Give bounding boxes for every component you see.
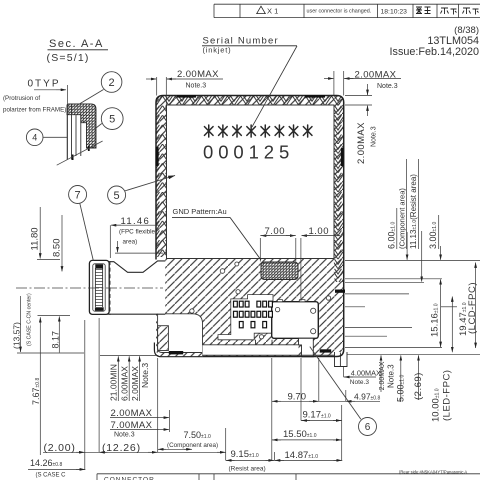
svg-text:Note.3: Note.3 <box>350 379 370 386</box>
svg-text:(inkjet): (inkjet) <box>203 46 232 55</box>
svg-text:polarizer from FRAME): polarizer from FRAME) <box>3 107 66 114</box>
svg-text:2.00MAX: 2.00MAX <box>355 70 397 81</box>
svg-text:6: 6 <box>365 422 371 433</box>
svg-text:7.00: 7.00 <box>265 226 286 237</box>
svg-text:11.13±1.0(Resist area): 11.13±1.0(Resist area) <box>409 174 418 249</box>
svg-text:X 1: X 1 <box>267 6 278 15</box>
svg-text:8.17: 8.17 <box>50 331 60 349</box>
svg-text:7: 7 <box>75 190 81 202</box>
svg-text:(FPC flexible: (FPC flexible <box>119 229 156 236</box>
svg-text:(LCD-FPC): (LCD-FPC) <box>467 282 478 334</box>
svg-text:9.70: 9.70 <box>288 392 307 403</box>
svg-text:Issue:Feb.14,2020: Issue:Feb.14,2020 <box>390 46 479 58</box>
svg-text:(2.00): (2.00) <box>44 442 76 454</box>
svg-text:Note.3: Note.3 <box>387 364 396 388</box>
svg-text:Note.3: Note.3 <box>371 126 378 147</box>
svg-text:2.00MAX: 2.00MAX <box>356 122 367 164</box>
svg-text:(Protrusion of: (Protrusion of <box>3 95 40 102</box>
svg-text:Note.3: Note.3 <box>377 83 398 90</box>
svg-text:2.00MAX: 2.00MAX <box>177 69 219 80</box>
svg-text:2.00MAX: 2.00MAX <box>379 361 386 390</box>
svg-text:Note.3: Note.3 <box>186 83 207 90</box>
svg-text:2.00MAX: 2.00MAX <box>111 408 153 419</box>
svg-text:4.00MAX: 4.00MAX <box>351 369 381 378</box>
svg-text:(S CASE C: (S CASE C <box>36 473 67 479</box>
svg-text:(LED-FPC): (LED-FPC) <box>442 370 453 421</box>
svg-text:5: 5 <box>114 190 120 202</box>
svg-text:8.50: 8.50 <box>52 239 63 258</box>
svg-text:7.00MAX: 7.00MAX <box>111 420 153 431</box>
svg-text:Sec. A-A: Sec. A-A <box>49 38 104 50</box>
svg-text:0TYP: 0TYP <box>28 79 61 90</box>
svg-text:11.46: 11.46 <box>121 216 151 227</box>
svg-text:6.00MAX: 6.00MAX <box>119 366 129 401</box>
svg-text:(S CASE C-CN center): (S CASE C-CN center) <box>27 293 33 346</box>
svg-text:2: 2 <box>109 77 115 89</box>
svg-text:GND Pattern:Au: GND Pattern:Au <box>173 207 227 216</box>
svg-text:(Component area): (Component area) <box>167 442 218 449</box>
svg-text:11.80: 11.80 <box>30 227 41 250</box>
svg-text:5: 5 <box>109 114 115 126</box>
svg-text:(Rear side:4N5KA04YT/Panasonic: (Rear side:4N5KA04YT/Panasonic A <box>399 469 467 474</box>
svg-text:(Component area): (Component area) <box>398 188 407 249</box>
svg-text:user connector is changed.: user connector is changed. <box>307 8 372 14</box>
svg-text:1.00: 1.00 <box>309 226 330 237</box>
svg-text:Note.3: Note.3 <box>114 432 135 439</box>
svg-text:18:10:23: 18:10:23 <box>381 8 408 15</box>
svg-text:area): area) <box>123 239 138 246</box>
svg-text:CONNECTOR: CONNECTOR <box>104 477 155 480</box>
svg-text:4: 4 <box>32 133 37 143</box>
svg-text:Note.3: Note.3 <box>140 363 150 388</box>
svg-text:(13.57): (13.57) <box>12 322 22 349</box>
svg-text:(12.26): (12.26) <box>102 442 141 454</box>
svg-text:(Resist area): (Resist area) <box>229 466 266 473</box>
svg-text:21.00MIN: 21.00MIN <box>109 364 119 401</box>
svg-text:(2.69): (2.69) <box>413 372 424 400</box>
svg-text:2.00MAX: 2.00MAX <box>130 366 140 401</box>
svg-text:(S=5/1): (S=5/1) <box>47 52 90 64</box>
svg-text:000125: 000125 <box>203 142 294 163</box>
